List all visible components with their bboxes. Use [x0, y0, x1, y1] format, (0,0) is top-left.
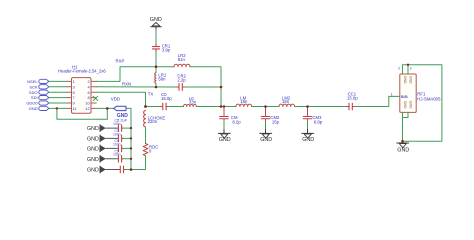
svg-text:81n: 81n [178, 57, 186, 62]
capacitor CM [220, 107, 229, 122]
inductor LR1 [155, 73, 156, 84]
svg-text:GND: GND [403, 76, 407, 84]
svg-text:GND: GND [219, 137, 231, 143]
wire RXP vertical from pin2 [96, 67, 174, 82]
inductor LM2 [279, 104, 295, 106]
svg-text:2: 2 [398, 67, 400, 71]
svg-text:100n: 100n [113, 142, 121, 146]
connector H1 [72, 78, 92, 114]
svg-text:56n: 56n [158, 76, 166, 81]
svg-text:GND: GND [87, 157, 99, 163]
wire L0 to LM [196, 106, 236, 108]
ground flag row2 [87, 135, 118, 142]
capacitor row3 [118, 145, 123, 152]
capacitor CC1 [346, 103, 355, 110]
no-connect X pin8 [93, 96, 98, 100]
net port VDD [114, 106, 126, 110]
wire pin11 loop [57, 108, 107, 119]
wire CM2 to ground [265, 121, 267, 130]
resistor RDC [143, 144, 148, 156]
capacitor row4 [118, 156, 123, 163]
inductor L0 [184, 104, 197, 106]
wire RF1 bottom gnd [403, 112, 409, 141]
pin stubs H1 [66, 81, 96, 108]
svg-text:NSEL: NSEL [27, 79, 38, 84]
svg-text:100n: 100n [113, 132, 121, 136]
svg-text:GND: GND [87, 136, 99, 142]
wire RXN [96, 86, 176, 88]
svg-text:15p: 15p [272, 119, 280, 124]
svg-text:VDD: VDD [111, 96, 120, 101]
capacitor C0 [160, 103, 169, 110]
svg-text:GND: GND [87, 168, 99, 174]
ground flag row5 [87, 166, 120, 173]
svg-text:33n: 33n [189, 99, 197, 104]
svg-text:Header-Female-2.54_2x6: Header-Female-2.54_2x6 [58, 69, 106, 74]
ground flag row1 [87, 125, 118, 132]
svg-text:10: 10 [85, 101, 90, 106]
svg-text:2.2p: 2.2p [177, 77, 186, 82]
wire node to RXN [155, 67, 157, 87]
svg-text:100n: 100n [113, 122, 121, 126]
ground flag row4 [87, 155, 118, 162]
capacitor CR2 [176, 84, 185, 91]
svg-text:8.2p: 8.2p [232, 119, 241, 124]
svg-text:GND: GND [150, 17, 162, 23]
pin names RF1 [403, 76, 413, 109]
wires flags to H1 [49, 81, 66, 108]
svg-text:18n: 18n [282, 99, 290, 104]
svg-text:SDO: SDO [29, 90, 38, 95]
svg-text:6.8p: 6.8p [314, 119, 323, 124]
svg-text:15.0p: 15.0p [161, 96, 172, 101]
inductor LM [236, 104, 252, 106]
svg-text:3: 3 [410, 67, 412, 71]
svg-text:1: 1 [391, 92, 393, 96]
svg-text:HJ-SMA005: HJ-SMA005 [417, 97, 441, 102]
wire main line TX node to C0 [146, 106, 161, 108]
capacitor row2 [118, 135, 123, 142]
svg-text:SDI: SDI [31, 95, 38, 100]
wire RDC to VDD bus [131, 156, 146, 170]
ground under CM2 [260, 133, 272, 138]
net labels left [26, 79, 38, 111]
ground GND top flag [151, 22, 162, 26]
pin numbers H1 [73, 79, 91, 111]
svg-text:TX: TX [148, 91, 154, 96]
wire GND to CR1 [155, 27, 157, 30]
capacitor CR1 [152, 44, 159, 52]
wire TX from pin6 [96, 92, 145, 106]
inductor LCHOKE [144, 111, 146, 127]
wire LCHOKE to RDC [145, 127, 147, 144]
svg-text:100n: 100n [113, 153, 121, 157]
wire LM to LM2 [252, 106, 279, 108]
capacitor CM2 [261, 107, 270, 122]
inductor LR2 [174, 64, 190, 67]
ground flag row3 [87, 145, 118, 152]
svg-text:SIG: SIG [401, 94, 408, 99]
wire CM to ground [223, 121, 225, 130]
ground under CM3 [302, 133, 314, 138]
svg-text:GND: GND [408, 76, 412, 84]
wire pin12 to VDD bus [96, 108, 131, 169]
svg-text:GND: GND [302, 137, 314, 143]
svg-text:SCK: SCK [29, 84, 38, 89]
capacitor row5 [120, 166, 125, 173]
ground RF1 [397, 143, 409, 148]
svg-text:12: 12 [85, 106, 90, 111]
svg-text:RXN: RXN [122, 81, 131, 86]
svg-text:220n: 220n [148, 119, 158, 124]
svg-text:GND: GND [260, 137, 272, 143]
net flags left [39, 79, 49, 110]
capacitor row1 [118, 125, 123, 132]
svg-text:15.0p: 15.0p [347, 95, 358, 100]
wire LR2 to right vertical [190, 67, 221, 107]
svg-text:GND: GND [408, 101, 412, 109]
svg-text:3.9p: 3.9p [162, 48, 171, 53]
ground under CM [218, 133, 230, 138]
svg-text:GND: GND [87, 126, 99, 132]
wire CC1 to RF1 [355, 96, 400, 106]
wire RF1 top gnd loop [403, 65, 442, 141]
wire CR2 to right vertical [185, 86, 221, 88]
svg-text:GND: GND [87, 146, 99, 152]
svg-text:GND: GND [29, 106, 38, 111]
svg-text:GND: GND [403, 101, 407, 109]
svg-text:GND: GND [397, 148, 409, 154]
wire CM3 to ground [307, 121, 309, 130]
wire LM2 to CC1 [295, 106, 347, 108]
wire C0 to L0 [169, 106, 184, 108]
connector RF1 [400, 74, 416, 112]
capacitor CM3 [303, 107, 312, 122]
svg-text:GDO0: GDO0 [26, 101, 38, 106]
svg-text:18n: 18n [240, 99, 248, 104]
svg-text:RXP: RXP [116, 58, 125, 63]
wire CR1 to node [155, 52, 157, 67]
